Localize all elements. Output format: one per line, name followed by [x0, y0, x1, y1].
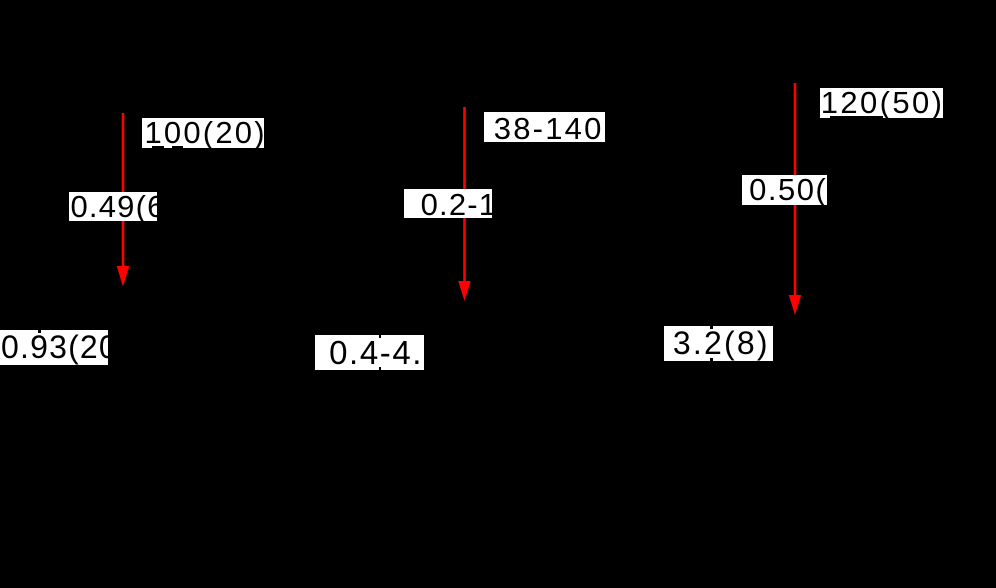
hidden black glyph nub under label 100(20) right — [172, 146, 183, 149]
hidden vertical line notch at top of label 0.93(20 — [38, 330, 41, 333]
arrow 3 head — [789, 295, 802, 315]
hidden vertical line notch at bottom of label 0.4-4. — [379, 367, 382, 370]
arrow 3 shaft — [794, 83, 797, 299]
label 0.50( clipped — [742, 175, 827, 206]
label 0.4-4. — [315, 335, 424, 370]
hidden black glyph nub under label 100(20) left — [152, 146, 164, 149]
label 0.49(6 clipped — [69, 192, 157, 221]
hidden vertical line notch at top of label 0.4-4. — [379, 335, 382, 338]
label 0.2-1 clipped — [404, 189, 492, 218]
label 3.2(8) — [664, 326, 773, 361]
arrow 1 shaft — [122, 113, 125, 270]
label 38-140 — [484, 112, 606, 142]
hidden black glyph nub under label 120(50) — [830, 116, 883, 117]
arrow 1 head — [117, 266, 130, 287]
label 0.93(20 clipped at canvas edge — [0, 330, 108, 364]
hidden vertical line notch at top of label 3.2(8) — [710, 326, 713, 329]
arrow 2 shaft — [463, 107, 466, 285]
label 120(50) — [820, 88, 943, 117]
label 100(20) — [142, 118, 264, 148]
hidden vertical line notch at bottom of label 3.2(8) — [710, 358, 713, 361]
arrow 2 head — [458, 281, 471, 301]
